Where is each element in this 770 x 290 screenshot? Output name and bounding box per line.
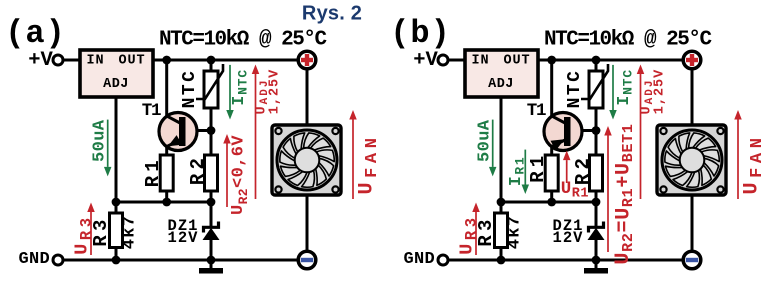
ground symbol (b) bbox=[584, 260, 608, 274]
wire R2 to bottom rail (a) bbox=[210, 191, 213, 202]
label 1,25V (b) bbox=[653, 69, 668, 115]
voltage arrow U_R1 (b) bbox=[563, 151, 571, 183]
svg-text:IN: IN bbox=[86, 54, 104, 69]
pin label OUT (a) bbox=[118, 54, 145, 69]
label 12V (a) bbox=[168, 229, 199, 247]
label DZ1 (a) bbox=[168, 217, 199, 235]
wire ADJ pin (a) bbox=[115, 97, 118, 202]
label R3 (b) bbox=[475, 215, 497, 246]
fan M1 (a) bbox=[272, 125, 341, 195]
svg-text:NTC: NTC bbox=[180, 69, 200, 109]
wire R1 to bottom rail (a) bbox=[165, 191, 168, 202]
wire base of T1 (a) bbox=[184, 129, 211, 132]
bottom rail wire (a) bbox=[116, 201, 211, 204]
zener diode DZ1 (b) bbox=[588, 222, 605, 241]
svg-text:+V: +V bbox=[28, 49, 53, 72]
svg-text:INTC: INTC bbox=[614, 69, 635, 106]
wire +V to regulator IN (b) bbox=[448, 59, 465, 62]
wire collector of T1 to top rail (a) bbox=[167, 60, 180, 123]
svg-text:(b): (b) bbox=[390, 15, 451, 52]
svg-text:IN: IN bbox=[471, 54, 489, 69]
label R1 (b) bbox=[527, 152, 549, 183]
voltage arrow U_ADJ (a) bbox=[252, 65, 260, 200]
voltage arrow U_R3 (b) bbox=[472, 203, 480, 256]
node: collector junction on top rail (a) bbox=[162, 56, 171, 65]
node: base/NTC/R2 junction (a) bbox=[207, 126, 216, 135]
label I_NTC (a) bbox=[229, 69, 250, 106]
node: NTC junction on top rail (b) bbox=[592, 56, 601, 65]
wire collector of T1 to top rail (b) bbox=[552, 60, 565, 123]
node: R3 on ground rail (b) bbox=[497, 256, 506, 265]
label U_R2<0,6V (a) bbox=[229, 135, 251, 215]
resistor R2 (a) bbox=[205, 155, 218, 191]
label 4k7 (b) bbox=[506, 215, 525, 250]
wire base node to R2 (a) bbox=[210, 131, 213, 155]
svg-text:4k7: 4k7 bbox=[506, 215, 525, 250]
T1 base bar (b) bbox=[564, 117, 571, 146]
voltage regulator U1 (b) bbox=[465, 50, 538, 97]
svg-text:UR3: UR3 bbox=[72, 214, 96, 254]
label U_R3 (b) bbox=[457, 214, 481, 254]
transistor T1 (b) bbox=[544, 113, 582, 151]
svg-text:OUT: OUT bbox=[503, 54, 530, 69]
svg-text:R2: R2 bbox=[572, 154, 594, 185]
resistor R1 (b) bbox=[545, 155, 558, 191]
svg-text:12V: 12V bbox=[553, 229, 584, 247]
label R2 (b) bbox=[572, 154, 594, 185]
svg-text:UFAN: UFAN bbox=[740, 133, 766, 194]
svg-text:NTC: NTC bbox=[565, 69, 585, 109]
top rail wire OUT to fan + (b) bbox=[538, 59, 683, 62]
svg-text:Rys. 2: Rys. 2 bbox=[302, 3, 362, 25]
label NTC (a) bbox=[180, 69, 200, 109]
figure caption Rys. 2 bbox=[302, 3, 362, 25]
label 1,25V (a) bbox=[268, 69, 283, 115]
wire R2 to bottom rail (b) bbox=[595, 191, 598, 202]
wire rail to DZ1 cathode (b) bbox=[595, 202, 598, 228]
transistor T1 (a) bbox=[159, 113, 197, 151]
label 50uA (a) bbox=[91, 119, 110, 162]
+V supply terminal (a) bbox=[53, 55, 63, 65]
label U_FAN (a) bbox=[355, 133, 381, 194]
wire top rail to NTC (a) bbox=[210, 60, 213, 72]
top rail wire OUT to fan + (a) bbox=[153, 59, 298, 62]
current arrow 50uA (b) bbox=[489, 120, 497, 177]
svg-text:50uA: 50uA bbox=[91, 119, 110, 162]
voltage arrow U_R2 (b) bbox=[604, 126, 612, 252]
current arrow I_NTC (b) bbox=[609, 65, 617, 120]
node: ADJ/R3 junction (b) bbox=[497, 198, 506, 207]
svg-text:NTC=10kΩ @ 25°C: NTC=10kΩ @ 25°C bbox=[544, 29, 712, 52]
svg-text:R1: R1 bbox=[527, 152, 549, 183]
figure label (b) bbox=[390, 15, 451, 52]
wire DZ1 anode to ground rail (a) bbox=[210, 239, 213, 260]
svg-text:ADJ: ADJ bbox=[103, 77, 129, 92]
svg-text:GND: GND bbox=[404, 250, 436, 269]
label GND (a) bbox=[19, 250, 51, 269]
wire rail to R3 (a) bbox=[115, 202, 118, 213]
label +V (b) bbox=[413, 49, 438, 72]
label T1 (b) bbox=[527, 101, 546, 121]
svg-text:NTC=10kΩ @ 25°C: NTC=10kΩ @ 25°C bbox=[159, 29, 327, 52]
svg-text:IR1: IR1 bbox=[506, 156, 527, 186]
svg-text:T1: T1 bbox=[142, 101, 161, 121]
svg-text:ADJ: ADJ bbox=[488, 77, 514, 92]
fan + terminal (a) bbox=[298, 51, 316, 69]
label U_R1 (b) bbox=[561, 179, 589, 201]
wire R3 to ground rail (a) bbox=[115, 248, 118, 261]
wire fan to - terminal (a) bbox=[306, 195, 309, 251]
current arrow 50uA (a) bbox=[104, 120, 112, 177]
label R1 (a) bbox=[142, 156, 164, 187]
wire NTC to base node (b) bbox=[595, 108, 598, 131]
node: NTC junction on top rail (a) bbox=[207, 56, 216, 65]
label +V (a) bbox=[28, 49, 53, 72]
voltage arrow U_R3 (a) bbox=[87, 203, 95, 256]
fan M1 (b) bbox=[657, 125, 726, 195]
thermistor NTC (b) bbox=[581, 64, 608, 108]
fan + terminal (b) bbox=[683, 51, 701, 69]
wire DZ1 anode to ground rail (b) bbox=[595, 239, 598, 260]
svg-text:UR2=UR1+UBET1: UR2=UR1+UBET1 bbox=[612, 123, 637, 264]
T1 base bar (a) bbox=[179, 117, 186, 146]
label U_ADJ (a) bbox=[255, 79, 272, 115]
label R3 (a) bbox=[90, 215, 112, 246]
label GND (b) bbox=[404, 250, 436, 269]
svg-text:12V: 12V bbox=[168, 229, 199, 247]
svg-text:1,25V: 1,25V bbox=[653, 69, 668, 115]
label I_NTC (b) bbox=[614, 69, 635, 106]
resistor R3 (a) bbox=[110, 213, 123, 248]
ground rail wire (a) bbox=[63, 259, 298, 262]
resistor R1 (a) bbox=[160, 155, 173, 191]
node: base/NTC/R2 junction (b) bbox=[592, 126, 601, 135]
GND terminal (a) bbox=[53, 255, 63, 265]
node: R2/DZ1 junction (a) bbox=[207, 198, 216, 207]
label I_R1 (b) bbox=[506, 156, 527, 186]
node: DZ1 on ground rail (a) bbox=[207, 256, 216, 265]
voltage regulator U1 (a) bbox=[80, 50, 153, 97]
resistor R3 (b) bbox=[495, 213, 508, 248]
voltage arrow U_R2 (a) bbox=[223, 134, 231, 207]
svg-text:UR3: UR3 bbox=[457, 214, 481, 254]
wire emitter of T1 with arrow (b) bbox=[551, 139, 566, 155]
svg-text:OUT: OUT bbox=[118, 54, 145, 69]
label 50uA (b) bbox=[476, 119, 495, 162]
pin label ADJ (b) bbox=[488, 77, 514, 92]
+V supply terminal (b) bbox=[438, 55, 448, 65]
svg-text:R2: R2 bbox=[187, 154, 209, 185]
svg-text:UFAN: UFAN bbox=[355, 133, 381, 194]
voltage arrow U_ADJ (b) bbox=[637, 65, 645, 200]
pin label IN (a) bbox=[86, 54, 104, 69]
pin label OUT (b) bbox=[503, 54, 530, 69]
resistor R2 (b) bbox=[590, 155, 603, 191]
svg-text:1,25V: 1,25V bbox=[268, 69, 283, 115]
current arrow I_R1 (b) bbox=[522, 150, 530, 194]
wire +V to regulator IN (a) bbox=[63, 59, 80, 62]
wire base node to R2 (b) bbox=[595, 131, 598, 155]
node: R1 bottom junction (a) bbox=[162, 198, 171, 207]
pin label ADJ (a) bbox=[103, 77, 129, 92]
ground symbol (a) bbox=[199, 260, 223, 274]
svg-text:+V: +V bbox=[413, 49, 438, 72]
svg-text:T1: T1 bbox=[527, 101, 546, 121]
current arrow I_NTC (a) bbox=[226, 65, 234, 120]
node: DZ1 on ground rail (b) bbox=[592, 256, 601, 265]
label U_FAN (b) bbox=[740, 133, 766, 194]
wire rail to R3 (b) bbox=[500, 202, 503, 213]
wire R3 to ground rail (b) bbox=[500, 248, 503, 261]
voltage arrow U_FAN (b) bbox=[734, 110, 742, 199]
zener diode DZ1 (a) bbox=[203, 222, 220, 241]
fan - terminal (b) bbox=[683, 251, 701, 269]
label 12V (b) bbox=[553, 229, 584, 247]
label U_ADJ (b) bbox=[640, 79, 657, 115]
node: collector junction on top rail (b) bbox=[547, 56, 556, 65]
label DZ1 (b) bbox=[553, 217, 584, 235]
voltage arrow U_FAN (a) bbox=[349, 110, 357, 199]
fan - terminal (a) bbox=[298, 251, 316, 269]
node: R3 on ground rail (a) bbox=[112, 256, 121, 265]
label NTC (b) bbox=[565, 69, 585, 109]
wire R1 to bottom rail (b) bbox=[550, 191, 553, 202]
wire + terminal to fan (a) bbox=[306, 69, 309, 125]
pin label IN (b) bbox=[471, 54, 489, 69]
wire top rail to NTC (b) bbox=[595, 60, 598, 72]
wire fan to - terminal (b) bbox=[691, 195, 694, 251]
svg-text:UR2<0,6V: UR2<0,6V bbox=[229, 135, 251, 215]
label NTC=10kOhm @ 25C (b) bbox=[544, 29, 712, 52]
svg-text:(a): (a) bbox=[5, 15, 66, 52]
label U_R2=U_R1+U_BET1 (b) bbox=[612, 123, 637, 264]
wire ADJ pin (b) bbox=[500, 97, 503, 202]
GND terminal (b) bbox=[438, 255, 448, 265]
svg-text:GND: GND bbox=[19, 250, 51, 269]
svg-text:R1: R1 bbox=[142, 156, 164, 187]
figure label (a) bbox=[5, 15, 66, 52]
svg-text:INTC: INTC bbox=[229, 69, 250, 106]
wire + terminal to fan (b) bbox=[691, 69, 694, 125]
ground rail wire (b) bbox=[448, 259, 683, 262]
label NTC=10kOhm @ 25C (a) bbox=[159, 29, 327, 52]
bottom rail wire (b) bbox=[501, 201, 596, 204]
svg-text:50uA: 50uA bbox=[476, 119, 495, 162]
label U_R3 (a) bbox=[72, 214, 96, 254]
svg-text:4k7: 4k7 bbox=[121, 215, 140, 250]
node: R2/DZ1 junction (b) bbox=[592, 198, 601, 207]
label R2 (a) bbox=[187, 154, 209, 185]
node: R1 bottom junction (b) bbox=[547, 198, 556, 207]
label T1 (a) bbox=[142, 101, 161, 121]
wire NTC to base node (a) bbox=[210, 108, 213, 131]
label 4k7 (a) bbox=[121, 215, 140, 250]
wire emitter of T1 with arrow (a) bbox=[167, 135, 182, 155]
node: ADJ/R3 junction (a) bbox=[112, 198, 121, 207]
wire base of T1 (b) bbox=[569, 129, 596, 132]
wire rail to DZ1 cathode (a) bbox=[210, 202, 213, 228]
thermistor NTC (a) bbox=[196, 64, 223, 108]
